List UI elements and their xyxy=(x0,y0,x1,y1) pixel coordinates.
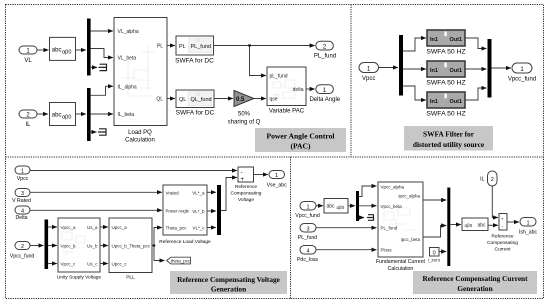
outport 1 Vse_abc xyxy=(267,171,288,189)
svg-text:+: + xyxy=(501,216,504,221)
svg-text:Vpcc_fund: Vpcc_fund xyxy=(508,77,536,83)
svg-text:SWFA for DC: SWFA for DC xyxy=(175,58,214,65)
wire to Vpcc_a xyxy=(48,226,57,228)
wire QL_fund to gain xyxy=(214,98,233,100)
svg-text:PL: PL xyxy=(157,44,163,50)
wire sum to outport xyxy=(507,221,519,223)
wire Vpcc to sum minus xyxy=(30,170,237,172)
wire IL down to sum xyxy=(492,186,498,218)
svg-text:IL_alpha: IL_alpha xyxy=(118,84,137,90)
PLL block xyxy=(109,218,152,281)
svg-text:IL_beta: IL_beta xyxy=(118,112,135,118)
svg-text:abc: abc xyxy=(52,112,62,118)
svg-text:QL_fund: QL_fund xyxy=(191,97,212,103)
svg-text:Upcc_c: Upcc_c xyxy=(112,262,128,267)
svg-text:Reference Compensating Current: Reference Compensating Current xyxy=(422,274,528,283)
svg-text:Upcc_b_: Upcc_b_ xyxy=(112,244,130,249)
svg-text:Vpcc: Vpcc xyxy=(17,176,29,182)
wire delta to outport 1 xyxy=(306,88,315,90)
demux bar 2 xyxy=(87,88,91,141)
svg-text:0: 0 xyxy=(433,250,436,256)
svg-text:Theta_pcc: Theta_pcc xyxy=(129,244,151,249)
mux bar xyxy=(447,188,450,267)
wire to Vpcc_alpha xyxy=(359,186,376,197)
wire PLL Theta_pcc out with junction xyxy=(152,228,162,246)
sum block Reference Compensating Voltage xyxy=(231,167,262,203)
wire to Vpcc_c xyxy=(48,263,57,265)
svg-text:+: + xyxy=(241,177,245,183)
mux bar xyxy=(217,185,221,235)
wire to SWFA B xyxy=(403,68,426,70)
wire to abc block xyxy=(316,205,323,207)
wire branch to goto tag xyxy=(154,246,164,261)
inport 4 Pdc_loss xyxy=(297,246,318,264)
SWFA for DC block (PL) xyxy=(175,36,214,65)
wire Vpcc to demux xyxy=(379,67,398,69)
wire to terminator 1 xyxy=(91,66,97,68)
svg-text:Current: Current xyxy=(495,247,512,253)
wire VL to abc1 xyxy=(37,49,48,51)
Fundamental Current Calculation block xyxy=(376,182,426,272)
wire mux to sum plus xyxy=(221,178,237,211)
inport 1 Vpcc xyxy=(15,166,30,182)
wire PL xyxy=(167,45,175,47)
svg-text:abc: abc xyxy=(52,48,62,54)
gain 0.5 xyxy=(228,91,261,126)
svg-text:In1: In1 xyxy=(430,99,438,105)
svg-text:Compensating: Compensating xyxy=(231,191,262,197)
svg-text:Reference: Reference xyxy=(491,234,513,240)
SWFA for DC block (QL) xyxy=(176,90,215,117)
terminator 1 xyxy=(99,64,107,71)
inport 2 IL vertical xyxy=(480,171,497,186)
svg-text:-: - xyxy=(241,170,243,176)
terminator 3 xyxy=(367,214,374,220)
wire IL_alpha xyxy=(91,86,113,95)
svg-text:Vse_abc: Vse_abc xyxy=(267,183,288,189)
svg-text:Vpcc_fund: Vpcc_fund xyxy=(10,254,35,260)
svg-text:Vpcc_b: Vpcc_b xyxy=(61,244,77,249)
inport 1 VL xyxy=(19,46,37,64)
wire to terminator 2 xyxy=(91,131,97,133)
svg-text:Delta Angle: Delta Angle xyxy=(309,97,340,103)
svg-text:qse: qse xyxy=(270,97,278,103)
wire Us_c to Upcc_c xyxy=(100,263,108,265)
wire VL_alpha xyxy=(91,30,113,32)
abc to alpha-beta block 2 xyxy=(50,103,76,126)
svg-text:Us_a: Us_a xyxy=(87,225,98,230)
svg-text:VL*_b: VL*_b xyxy=(192,209,205,214)
svg-text:Delta: Delta xyxy=(15,215,27,221)
inport 3 PL_fund xyxy=(298,224,317,242)
wire IL_beta xyxy=(91,113,113,115)
svg-text:QL: QL xyxy=(179,97,186,103)
svg-text:Calculation: Calculation xyxy=(388,266,414,272)
wire QL xyxy=(167,98,175,100)
svg-text:Vpcc_a: Vpcc_a xyxy=(61,225,77,230)
svg-text:3: 3 xyxy=(306,226,309,232)
svg-text:1: 1 xyxy=(21,169,24,175)
svg-text:PLL: PLL xyxy=(126,275,135,281)
junction xyxy=(248,44,251,47)
gray title Ref Comp Voltage Generation xyxy=(170,271,287,294)
svg-text:Theta_pcc: Theta_pcc xyxy=(166,226,188,231)
wire to SWFA A xyxy=(403,38,426,51)
demux bar xyxy=(356,191,359,221)
svg-text:Compensating: Compensating xyxy=(487,240,518,246)
svg-text:Load PQ: Load PQ xyxy=(128,130,152,136)
svg-text:1: 1 xyxy=(306,204,309,210)
svg-text:VL: VL xyxy=(24,58,32,64)
svg-text:50%: 50% xyxy=(238,112,251,118)
svg-text:SWFA for DC: SWFA for DC xyxy=(176,110,215,117)
wire A to mux xyxy=(465,38,486,49)
svg-text:ipcc_beta: ipcc_beta xyxy=(401,237,421,242)
svg-text:PL_fund: PL_fund xyxy=(314,54,336,60)
wire B to mux xyxy=(465,68,486,70)
wire VL*_b to mux xyxy=(207,210,216,212)
svg-text:Reference: Reference xyxy=(235,184,257,190)
svg-text:abc: abc xyxy=(327,204,336,210)
inport 1 Vpcc_fund xyxy=(295,202,320,220)
demux bar xyxy=(399,35,403,96)
svg-text:VL*_a: VL*_a xyxy=(192,190,205,195)
svg-text:Reference Load Voltage: Reference Load Voltage xyxy=(159,239,211,245)
svg-text:Out1: Out1 xyxy=(449,37,462,43)
inport 1 Vpcc xyxy=(359,63,379,83)
wire abc3 to demux xyxy=(348,205,355,207)
svg-text:Upcc_a: Upcc_a xyxy=(112,225,128,230)
svg-text:Generation: Generation xyxy=(457,284,492,293)
svg-text:i_zero: i_zero xyxy=(428,258,441,263)
wire mux to outport xyxy=(492,67,511,69)
svg-text:4: 4 xyxy=(21,209,24,215)
svg-text:αβ0: αβ0 xyxy=(337,205,345,210)
abc to alpha-beta block 3 xyxy=(324,199,348,214)
svg-text:In1: In1 xyxy=(430,37,438,43)
wire V Rated to Vrated xyxy=(30,191,162,193)
wire gain to qse xyxy=(254,98,266,100)
svg-text:αβ0: αβ0 xyxy=(62,50,71,56)
svg-text:Vpcc: Vpcc xyxy=(362,76,375,82)
wire Us_a to Upcc_a xyxy=(100,226,108,228)
svg-text:PL_fund: PL_fund xyxy=(191,44,212,50)
svg-text:Out1: Out1 xyxy=(449,99,462,105)
svg-text:Power Angle: Power Angle xyxy=(166,208,190,213)
svg-text:αβ0: αβ0 xyxy=(465,223,473,228)
svg-text:(PAC): (PAC) xyxy=(290,141,311,150)
svg-text:Out1: Out1 xyxy=(449,68,462,74)
svg-text:V Rated: V Rated xyxy=(12,198,31,204)
svg-text:1: 1 xyxy=(275,173,278,179)
svg-text:4: 4 xyxy=(306,248,309,254)
wire abc1 to mux1 xyxy=(75,49,86,51)
outport 1 Ish_abc xyxy=(519,218,538,236)
svg-text:distorted utility source: distorted utility source xyxy=(413,140,485,149)
svg-text:SWFA Filter for: SWFA Filter for xyxy=(423,130,475,139)
abc to alpha-beta block 1 xyxy=(50,37,76,60)
svg-text:αβ0: αβ0 xyxy=(62,114,71,120)
divider vertical bottom panels xyxy=(290,157,292,299)
sum block Reference Compensating Current xyxy=(487,214,518,253)
svg-text:IL: IL xyxy=(480,177,484,183)
wire Us_b to Upcc_b xyxy=(100,245,108,247)
wire branch to pL_fund input xyxy=(250,46,266,76)
svg-text:Calculation: Calculation xyxy=(125,138,155,144)
wire mux to alpha-beta-abc xyxy=(450,224,461,226)
svg-text:Vrated: Vrated xyxy=(166,190,180,195)
svg-text:sharing of Q: sharing of Q xyxy=(228,120,261,126)
svg-text:Variable PAC: Variable PAC xyxy=(269,109,305,115)
wire VL*_a to mux xyxy=(207,191,216,193)
svg-text:2: 2 xyxy=(21,244,24,250)
wire VL_beta xyxy=(91,49,113,58)
wire PL_fund xyxy=(316,227,376,229)
Variable PAC block xyxy=(267,67,306,115)
wire abc2 to mux2 xyxy=(75,113,86,115)
svg-text:Vpcc_alpha: Vpcc_alpha xyxy=(381,184,405,189)
svg-text:3: 3 xyxy=(21,191,24,197)
svg-text:Vpcc_beta: Vpcc_beta xyxy=(381,204,403,209)
wire to terminator 3 xyxy=(359,217,364,219)
wire PL_fund to outport 2 xyxy=(214,45,315,47)
svg-text:SWFA 50 HZ: SWFA 50 HZ xyxy=(426,49,465,56)
outport 1 Delta Angle xyxy=(309,85,340,103)
svg-text:In1: In1 xyxy=(430,68,438,74)
svg-text:SWFA 50 HZ: SWFA 50 HZ xyxy=(426,80,465,87)
gray title Ref Comp Current Generation xyxy=(413,271,537,294)
divider vertical top panels xyxy=(350,5,352,158)
goto tag theta_pcc xyxy=(167,257,192,264)
inport 2 Vpcc_fund xyxy=(10,242,35,260)
svg-text:IL: IL xyxy=(25,122,31,128)
svg-text:Ploss: Ploss xyxy=(381,248,393,253)
svg-text:theta_pcc: theta_pcc xyxy=(171,259,191,264)
svg-text:2: 2 xyxy=(491,177,494,183)
wire to Vpcc_b xyxy=(48,245,57,247)
Load PQ Calculation block xyxy=(114,18,167,144)
wire Delta to Power Angle xyxy=(30,209,162,211)
svg-text:Generation: Generation xyxy=(211,285,246,294)
alpha-beta to abc block xyxy=(462,218,488,231)
wire IL to abc2 xyxy=(37,113,48,115)
wire sum to outport xyxy=(254,174,268,176)
svg-text:delta: delta xyxy=(293,87,304,93)
svg-text:PL_fund: PL_fund xyxy=(298,235,317,241)
wire Pdc_loss xyxy=(316,249,376,251)
Unity Supply Voltage block xyxy=(57,218,102,281)
svg-text:VL*_c: VL*_c xyxy=(192,226,205,231)
mux bar xyxy=(488,39,492,98)
wire to Vpcc_beta xyxy=(359,205,376,207)
inport 2 IL xyxy=(19,110,37,128)
divider horizontal xyxy=(6,156,544,158)
svg-text:Unity Supply Voltage: Unity Supply Voltage xyxy=(57,275,102,281)
demux bar xyxy=(45,220,49,270)
svg-text:Reference Compensating Voltage: Reference Compensating Voltage xyxy=(177,275,281,284)
svg-text:abc: abc xyxy=(477,223,486,229)
svg-text:Pdc_loss: Pdc_loss xyxy=(297,257,318,263)
svg-text:Fundamental Current: Fundamental Current xyxy=(376,259,426,265)
svg-text:Power Angle Control: Power Angle Control xyxy=(266,132,334,141)
svg-text:0.5: 0.5 xyxy=(236,97,245,103)
svg-text:Vpcc_c: Vpcc_c xyxy=(61,262,77,267)
Reference Load Voltage block xyxy=(159,185,211,245)
outport 1 Vpcc_fund xyxy=(508,63,536,83)
SWFA 50 HZ block A xyxy=(426,30,465,56)
svg-text:Us_c: Us_c xyxy=(87,262,98,267)
svg-text:PL_fund: PL_fund xyxy=(381,226,398,231)
svg-text:Voltage: Voltage xyxy=(238,197,254,203)
svg-text:SWFA 50 HZ: SWFA 50 HZ xyxy=(426,111,465,118)
SWFA gray title xyxy=(404,126,493,151)
inport 4 Delta xyxy=(15,206,30,221)
inport 3 V Rated xyxy=(12,189,31,205)
wire VL*_c to mux xyxy=(207,227,216,229)
svg-text:ipcc_alpha: ipcc_alpha xyxy=(398,194,420,199)
demux bar 1 xyxy=(87,19,91,76)
SWFA 50 HZ block B xyxy=(426,61,465,87)
SWFA 50 HZ block C xyxy=(426,92,465,118)
wire abc4 to sum minus xyxy=(488,224,498,226)
svg-text:PL: PL xyxy=(179,44,186,50)
svg-text:Us_b: Us_b xyxy=(87,244,98,249)
svg-text:Ish_abc: Ish_abc xyxy=(519,230,538,236)
wire C to mux xyxy=(465,88,486,100)
wire ipcc_beta to mux xyxy=(423,226,446,238)
wire ipcc_alpha to mux xyxy=(423,199,446,201)
wire 0 to mux xyxy=(439,251,446,253)
svg-text:QL: QL xyxy=(156,97,163,103)
svg-text:pL_fund: pL_fund xyxy=(270,74,288,80)
wire Vpcc_fund to demux xyxy=(30,245,43,247)
outport 2 PL_fund xyxy=(314,41,336,59)
constant 0 i_zero xyxy=(428,248,441,263)
wire to SWFA C xyxy=(403,86,426,100)
PAC gray title xyxy=(255,128,346,152)
svg-text:VL_alpha: VL_alpha xyxy=(118,29,139,35)
svg-text:Vpcc_fund: Vpcc_fund xyxy=(295,213,320,219)
svg-text:VL_beta: VL_beta xyxy=(118,56,137,62)
terminator 2 xyxy=(98,128,106,135)
svg-text:1: 1 xyxy=(526,220,529,226)
